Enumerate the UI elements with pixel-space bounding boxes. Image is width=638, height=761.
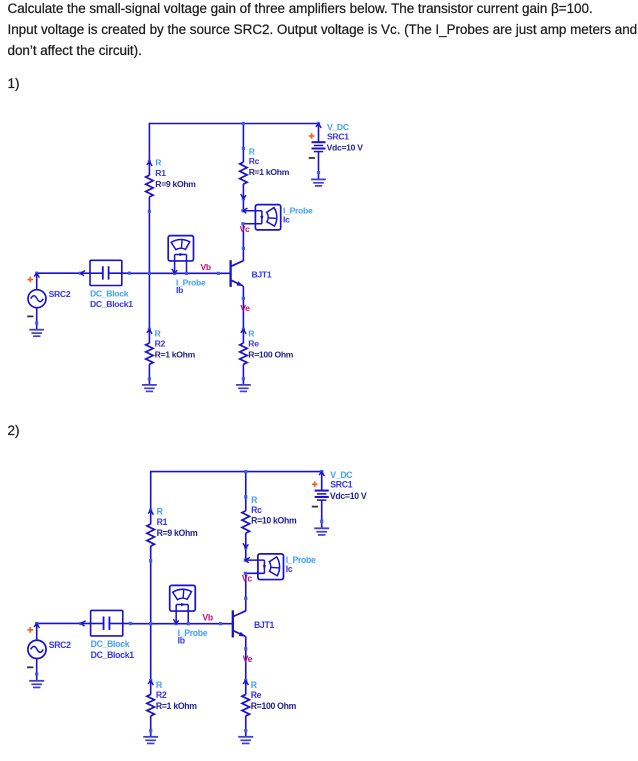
ammeter I_Probe Ib bbox=[168, 236, 193, 275]
wire: top rail down to Rc bbox=[242, 124, 244, 149]
wire: Vcc top rail bbox=[151, 471, 322, 473]
wire: R2 to ground bbox=[148, 379, 150, 385]
svg-text:Ve: Ve bbox=[243, 654, 253, 664]
svg-text:R1: R1 bbox=[157, 517, 168, 527]
svg-text:R: R bbox=[251, 495, 258, 505]
wire: Re to ground bbox=[242, 379, 244, 385]
ground below R2 bbox=[143, 737, 158, 744]
ground below SRC2 bbox=[29, 330, 44, 337]
svg-text:DC_Block: DC_Block bbox=[91, 639, 130, 649]
resistor Re bbox=[240, 328, 247, 381]
node: junction base wire / R1 R2 column bbox=[148, 272, 151, 275]
ammeter I_Probe Ib bbox=[170, 585, 196, 625]
wire: base junction down to R2 bbox=[148, 273, 150, 329]
wire: BJT1 emitter down to Re bbox=[244, 636, 247, 680]
svg-text:R=1 kOhm: R=1 kOhm bbox=[249, 167, 290, 177]
svg-text:R: R bbox=[157, 506, 164, 516]
node: top rail right end at SRC1 plus pin bbox=[319, 470, 324, 476]
label DC_Block1 bbox=[90, 289, 133, 310]
label Re value R=100 Ohm bbox=[251, 680, 297, 711]
wire: Vcc top rail bbox=[149, 123, 318, 125]
svg-text:SRC2: SRC2 bbox=[49, 640, 71, 650]
svg-text:R=10 kOhm: R=10 kOhm bbox=[251, 516, 297, 526]
wire: I_Probe Ic pin2 down to BJT1 collector bbox=[242, 224, 245, 261]
label R1 value R=9 kOhm bbox=[155, 158, 196, 189]
wire: R2 to ground bbox=[150, 731, 152, 737]
circuit 1: common-emitter amplifier bbox=[27, 122, 363, 392]
label I_Probe Ib bbox=[178, 628, 208, 646]
svg-text:R: R bbox=[155, 329, 162, 339]
svg-text:R=100 Ohm: R=100 Ohm bbox=[251, 701, 297, 711]
source SRC1 V_DC supply bbox=[312, 472, 329, 529]
wire: Re to ground bbox=[245, 731, 247, 737]
node: top rail right end at SRC1 plus pin bbox=[316, 122, 321, 128]
wire: top rail down to R1 bbox=[148, 123, 150, 162]
label I_Probe Ic bbox=[286, 555, 316, 574]
label DC_Block1 bbox=[91, 639, 135, 660]
transistor BJT1 bbox=[231, 260, 244, 287]
ammeter I_Probe Ic bbox=[244, 554, 284, 580]
wire: SRC2 to DC_Block bbox=[37, 622, 81, 624]
svg-text:Vc: Vc bbox=[242, 573, 252, 583]
wire: top rail down to Rc bbox=[245, 472, 247, 497]
circuit 2: common-emitter amplifier bbox=[27, 470, 367, 743]
svg-text:Ib: Ib bbox=[176, 285, 183, 295]
svg-text:DC_Block1: DC_Block1 bbox=[90, 299, 133, 309]
capacitor DC_Block1 bbox=[79, 260, 131, 285]
label Rc value R=1 kOhm bbox=[249, 146, 290, 177]
node Vb label bbox=[202, 612, 212, 622]
node Vc label bbox=[242, 573, 252, 583]
svg-text:R2: R2 bbox=[156, 690, 167, 700]
svg-text:BJT1: BJT1 bbox=[252, 270, 272, 280]
label R2 value R=1 kOhm bbox=[156, 680, 197, 711]
label SRC2 bbox=[49, 289, 71, 299]
wire: DC_Block to base junction bbox=[131, 623, 151, 625]
svg-text:R1: R1 bbox=[155, 168, 166, 178]
wire: DC_Block to base junction bbox=[130, 272, 150, 274]
svg-text:Vdc=10 V: Vdc=10 V bbox=[327, 142, 364, 152]
resistor R2 bbox=[146, 328, 153, 381]
node Vb label bbox=[201, 262, 211, 272]
wire: base junction to BJT1 base bbox=[151, 622, 233, 625]
label BJT1 bbox=[252, 270, 272, 280]
svg-text:R: R bbox=[248, 329, 255, 339]
ground below SRC2 bbox=[29, 681, 44, 688]
ground below SRC1 bbox=[314, 528, 329, 535]
svg-text:BJT1: BJT1 bbox=[254, 620, 274, 630]
label SRC1 Vdc=10 V bbox=[327, 122, 364, 152]
ammeter I_Probe Ic bbox=[241, 205, 280, 230]
resistor R2 bbox=[147, 679, 154, 732]
svg-text:R=9 kOhm: R=9 kOhm bbox=[157, 528, 198, 538]
label I_Probe Ib bbox=[176, 277, 206, 294]
wire: R1 bottom to base junction bbox=[148, 211, 150, 273]
svg-text:R: R bbox=[155, 158, 162, 168]
svg-text:Rc: Rc bbox=[249, 156, 260, 166]
node: junction top rail / Rc column bbox=[244, 470, 247, 473]
ground below SRC1 bbox=[311, 179, 326, 186]
ground below R2 bbox=[142, 385, 157, 392]
resistor Rc bbox=[240, 147, 247, 200]
svg-text:R: R bbox=[251, 680, 258, 690]
svg-text:Ic: Ic bbox=[286, 564, 293, 574]
label Rc value R=10 kOhm bbox=[251, 495, 297, 526]
wire: BJT1 emitter down to Re bbox=[242, 286, 245, 330]
svg-text:Ic: Ic bbox=[283, 214, 290, 224]
node: junction base wire / R1 R2 column bbox=[149, 622, 152, 625]
label BJT1 bbox=[254, 620, 274, 630]
wire: I_Probe Ic pin2 down to BJT1 collector bbox=[244, 573, 247, 611]
node: junction top rail / Rc column bbox=[242, 122, 245, 125]
svg-text:R=9 kOhm: R=9 kOhm bbox=[155, 179, 196, 189]
svg-text:Ib: Ib bbox=[178, 635, 185, 645]
svg-text:Vb: Vb bbox=[202, 612, 212, 622]
label Re value R=100 Ohm bbox=[248, 329, 293, 360]
wire: R1 bottom to base junction bbox=[150, 561, 152, 624]
svg-text:R: R bbox=[156, 680, 163, 690]
svg-text:SRC2: SRC2 bbox=[49, 289, 71, 299]
svg-text:Re: Re bbox=[251, 690, 262, 700]
wire: Rc bottom to I_Probe Ic pin1 bbox=[242, 199, 244, 211]
svg-text:SRC1: SRC1 bbox=[327, 131, 349, 141]
wire: base junction down to R2 bbox=[150, 624, 152, 681]
wire: top rail down to R1 bbox=[150, 471, 152, 510]
source SRC2 AC input bbox=[27, 622, 46, 681]
svg-text:R=1 kOhm: R=1 kOhm bbox=[156, 701, 197, 711]
node Ve label bbox=[243, 654, 253, 664]
svg-text:Re: Re bbox=[248, 339, 259, 349]
capacitor DC_Block1 bbox=[79, 610, 132, 636]
svg-text:DC_Block: DC_Block bbox=[90, 289, 129, 299]
svg-text:Ve: Ve bbox=[240, 303, 250, 313]
resistor R1 bbox=[147, 509, 154, 563]
ground below Re bbox=[236, 385, 251, 392]
node Ve label bbox=[240, 303, 250, 313]
label R2 value R=1 kOhm bbox=[155, 329, 196, 360]
svg-text:R=1 kOhm: R=1 kOhm bbox=[155, 349, 196, 359]
wire: SRC2 to DC_Block bbox=[37, 272, 81, 274]
svg-text:SRC1: SRC1 bbox=[330, 480, 352, 490]
label R1 value R=9 kOhm bbox=[157, 506, 198, 538]
resistor Rc bbox=[242, 495, 249, 549]
svg-text:R: R bbox=[249, 146, 256, 156]
wire: Rc bottom to I_Probe Ic pin1 bbox=[245, 548, 247, 560]
node Vc label bbox=[240, 224, 250, 234]
svg-text:Vc: Vc bbox=[240, 224, 250, 234]
transistor BJT1 bbox=[233, 610, 246, 637]
ground below Re bbox=[238, 737, 253, 744]
label SRC1 Vdc=10 V bbox=[330, 470, 367, 501]
wire: base junction to BJT1 base bbox=[149, 272, 230, 275]
resistor Re bbox=[242, 679, 249, 732]
svg-text:DC_Block1: DC_Block1 bbox=[91, 650, 135, 660]
svg-text:Rc: Rc bbox=[251, 505, 262, 515]
svg-text:R2: R2 bbox=[155, 339, 166, 349]
label SRC2 bbox=[49, 640, 71, 650]
label I_Probe Ic bbox=[283, 205, 313, 224]
source SRC1 V_DC supply bbox=[309, 124, 326, 180]
svg-text:R=100 Ohm: R=100 Ohm bbox=[248, 349, 293, 359]
svg-text:Vb: Vb bbox=[201, 262, 211, 272]
resistor R1 bbox=[146, 160, 153, 213]
svg-text:Vdc=10 V: Vdc=10 V bbox=[330, 491, 367, 501]
source SRC2 AC input bbox=[27, 272, 46, 330]
